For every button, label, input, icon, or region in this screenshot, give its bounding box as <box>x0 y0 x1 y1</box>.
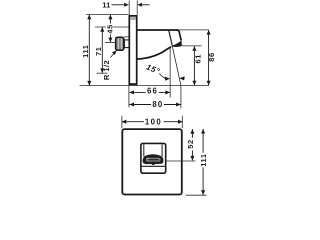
spout mouth inner edge (15 deg face) <box>169 30 173 45</box>
wire: 100 left extension <box>121 116 123 128</box>
wire: bottom reference line <box>80 85 210 87</box>
wire: 71 bottom reference tick <box>97 72 108 74</box>
dimension 111 (side view left) <box>81 15 91 86</box>
opening inner wall left <box>143 144 145 156</box>
connector between fitting and plate <box>124 40 129 48</box>
wire: 52 extension line <box>166 160 196 162</box>
label 15 deg with leader arrows <box>145 62 185 80</box>
dimension 11 <box>102 0 149 9</box>
label R 1/2 with leader <box>102 50 116 80</box>
svg-text:86: 86 <box>207 52 216 61</box>
wire: 80 extension line <box>180 85 182 108</box>
spout mouth front (dark) <box>143 154 164 165</box>
spout front face (tip, thick) <box>177 30 181 40</box>
escutcheon plate (front view) <box>122 129 182 194</box>
wire: fitting top edge to plate <box>124 36 129 38</box>
spout top edge <box>138 29 179 31</box>
wire: 71 top reference line <box>95 26 129 28</box>
dimension 66 <box>129 87 170 96</box>
wire: 111 bottom extension line <box>186 194 207 196</box>
wire: 61 top extension line <box>182 45 202 47</box>
wire: extension line above plate front <box>136 1 138 15</box>
opening in plate <box>141 143 166 173</box>
svg-text:66: 66 <box>147 87 158 96</box>
dimension 86 <box>207 30 216 85</box>
spout bottom curve <box>138 47 171 59</box>
spout beak (dark lip) <box>171 40 182 47</box>
wire: plate-top extension line to left <box>86 14 129 16</box>
pipe fitting R 1/2 <box>116 37 124 50</box>
ledge line under mouth <box>141 165 165 167</box>
dimension 45 <box>105 15 114 43</box>
dimension 111 (front view) <box>199 129 208 195</box>
wire: extension line above wall face <box>128 1 130 15</box>
wire: vertical reference at spout tip (66 extension) <box>169 47 171 98</box>
svg-text:111: 111 <box>199 153 208 166</box>
wire: top extension line to 86 dim <box>178 29 209 31</box>
escutcheon plate (side view) <box>129 16 136 85</box>
wire: 66/80 left extension line <box>128 86 130 108</box>
svg-text:61: 61 <box>193 54 202 63</box>
wire: 15 deg slanted reference line <box>169 32 181 85</box>
dimension 100 <box>122 117 183 126</box>
dimension 80 <box>129 100 180 109</box>
svg-text:71: 71 <box>94 46 103 55</box>
svg-text:80: 80 <box>152 100 163 109</box>
wire: 100 right extension <box>181 116 183 128</box>
svg-text:100: 100 <box>145 117 162 126</box>
svg-text:R 1/2: R 1/2 <box>102 60 111 80</box>
dimension 52 <box>186 129 195 160</box>
opening inner wall right <box>161 144 163 156</box>
dimension 71 <box>94 27 104 73</box>
svg-text:111: 111 <box>81 45 90 58</box>
wire: 45 bottom reference tick <box>105 42 116 44</box>
dimension 61 <box>192 46 202 85</box>
svg-text:11: 11 <box>102 0 111 9</box>
svg-text:52: 52 <box>186 139 195 148</box>
svg-text:45: 45 <box>105 24 114 33</box>
